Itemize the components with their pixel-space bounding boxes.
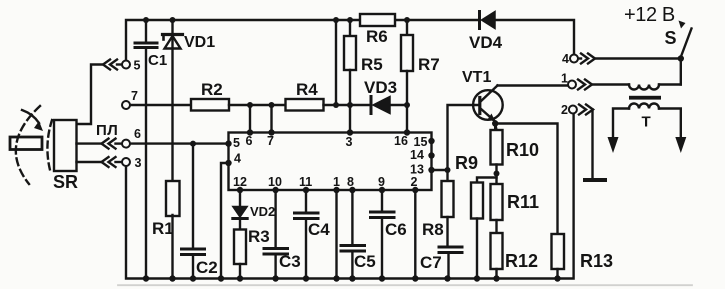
wire emitter branch to R13 bbox=[495, 124, 557, 235]
resistor R2 bbox=[191, 99, 229, 111]
svg-text:4: 4 bbox=[234, 152, 241, 166]
capacitor C1 bbox=[135, 20, 157, 279]
supply arrow head bbox=[679, 21, 686, 29]
svg-text:S: S bbox=[665, 28, 677, 48]
svg-text:4: 4 bbox=[562, 52, 569, 66]
svg-text:C3: C3 bbox=[279, 252, 301, 271]
resistor R13 bbox=[552, 234, 565, 279]
node VT1 emitter junction bbox=[492, 120, 498, 126]
resistor R3 bbox=[234, 230, 246, 279]
node switch junction bbox=[678, 55, 684, 61]
wire pin 1 to rail bbox=[335, 190, 337, 279]
svg-text:VD2: VD2 bbox=[250, 204, 275, 219]
wire pin 4 bbox=[221, 163, 229, 279]
scan shadow line bbox=[118, 284, 692, 286]
wire VT1 base vertical bbox=[448, 105, 479, 181]
node R7 wire junction bbox=[404, 102, 410, 108]
svg-text:R12: R12 bbox=[505, 251, 538, 271]
svg-text:R8: R8 bbox=[422, 220, 444, 239]
wire VD3 to R7 line bbox=[390, 104, 407, 106]
wire terminal 1 to transformer bbox=[592, 83, 629, 85]
terminal 6 bbox=[122, 140, 130, 148]
wire collector to terminal 1 bbox=[498, 84, 568, 86]
node R7 top bbox=[404, 17, 410, 23]
node VD1 rail junction bbox=[170, 17, 176, 23]
svg-text:5: 5 bbox=[134, 59, 141, 73]
dashed arc outer bbox=[16, 106, 40, 184]
terminal 2 bbox=[569, 106, 577, 114]
pin labels bottom row bbox=[233, 175, 418, 189]
transformer T primary bbox=[629, 59, 681, 90]
node pin6 drop junction bbox=[247, 102, 253, 108]
wire R1 to ground rail bbox=[171, 215, 173, 279]
node pin7 drop junction bbox=[269, 102, 275, 108]
connector chevron at terminal 1 bbox=[578, 80, 592, 90]
capacitor C6 bbox=[371, 190, 395, 279]
diode VD2 bbox=[233, 190, 247, 230]
resistor R6 bbox=[360, 14, 395, 26]
svg-text:16: 16 bbox=[394, 134, 408, 148]
wire VD4 anode to terminal 4 bbox=[495, 20, 574, 54]
terminal 1 bbox=[568, 81, 576, 89]
node R10 bottom junction bbox=[494, 171, 500, 177]
output arrow right bbox=[675, 137, 686, 153]
wire terminal 5 to SR top pin bbox=[77, 65, 104, 125]
IR ray arrow bbox=[22, 110, 43, 131]
connector chevron at terminal 6 bbox=[102, 139, 122, 149]
svg-text:R6: R6 bbox=[366, 27, 388, 46]
node R5 wire junction bbox=[347, 102, 353, 108]
wire branch rail to R2R4 line bbox=[335, 20, 337, 105]
dashed arc inner bbox=[47, 120, 52, 170]
capacitor C2 bbox=[182, 144, 205, 279]
svg-text:R9: R9 bbox=[455, 153, 478, 173]
svg-text:6: 6 bbox=[246, 134, 253, 148]
node R5 top bbox=[347, 17, 353, 23]
terminal 7 bbox=[122, 101, 130, 109]
switch S lever bbox=[681, 29, 692, 58]
wire junction to R9 bbox=[477, 178, 497, 183]
svg-text:R10: R10 bbox=[506, 140, 539, 160]
IC bottom pin dots bbox=[237, 187, 419, 193]
svg-text:R1: R1 bbox=[152, 219, 174, 238]
svg-text:R13: R13 bbox=[580, 251, 613, 271]
IC top pin dots bbox=[247, 129, 410, 135]
svg-text:R11: R11 bbox=[507, 192, 539, 212]
svg-text:C2: C2 bbox=[196, 258, 218, 277]
node branch bottom bbox=[333, 102, 339, 108]
svg-text:2: 2 bbox=[411, 175, 418, 189]
pin labels top row bbox=[233, 134, 427, 150]
svg-text:7: 7 bbox=[267, 134, 274, 148]
svg-text:T: T bbox=[642, 114, 651, 131]
node C1 rail junction bbox=[143, 17, 149, 23]
svg-text:+12 В: +12 В bbox=[624, 4, 675, 26]
svg-text:SR: SR bbox=[53, 172, 78, 192]
ground rail bottom bbox=[126, 114, 574, 279]
wire terminal 4 to switch bbox=[595, 57, 681, 59]
svg-text:3: 3 bbox=[346, 135, 353, 149]
wire terminal 7 to R2 bbox=[131, 104, 192, 106]
resistor R7 bbox=[401, 20, 413, 133]
resistor R8 bbox=[442, 181, 454, 246]
capacitor C3 bbox=[264, 190, 288, 279]
terminal 4 bbox=[570, 55, 578, 63]
resistor R10 bbox=[491, 124, 503, 185]
svg-text:14: 14 bbox=[410, 148, 424, 162]
node pin 4 bbox=[225, 160, 231, 166]
wire R2 to R4 bbox=[229, 104, 286, 106]
connector chevron at terminal 2 bbox=[579, 105, 593, 115]
wire pin 2 to rail bbox=[414, 190, 416, 279]
wire top supply rail left section bbox=[126, 20, 360, 60]
svg-text:VD3: VD3 bbox=[364, 78, 397, 97]
wire to IC pin 7 bbox=[270, 105, 272, 133]
terminal 3 bbox=[122, 158, 130, 166]
remote control emitter bar bbox=[10, 137, 42, 150]
svg-text:R5: R5 bbox=[361, 55, 383, 74]
resistor R11 bbox=[491, 184, 503, 233]
svg-text:ПЛ: ПЛ bbox=[96, 122, 118, 139]
wire pin 5 from terminal 6 bbox=[131, 142, 229, 144]
svg-text:R3: R3 bbox=[248, 227, 270, 246]
svg-text:VT1: VT1 bbox=[462, 69, 491, 86]
node branch top bbox=[333, 17, 339, 23]
connector chevron at terminal 4 bbox=[579, 54, 596, 64]
diode VD3 bbox=[371, 97, 390, 114]
svg-text:VD1: VD1 bbox=[184, 34, 215, 51]
zener diode VD1 bbox=[163, 20, 183, 181]
svg-text:R4: R4 bbox=[296, 80, 318, 99]
svg-text:5: 5 bbox=[233, 136, 240, 150]
resistor R4 bbox=[286, 99, 324, 111]
terminal 5 bbox=[122, 61, 130, 69]
svg-text:C7: C7 bbox=[420, 253, 442, 272]
capacitor C5 bbox=[341, 190, 365, 279]
IC right pin dots 15 14 13 bbox=[428, 138, 434, 173]
wire pin 13 to base chain bbox=[432, 169, 448, 171]
node pin 5 bbox=[225, 140, 231, 146]
svg-text:C6: C6 bbox=[385, 220, 407, 239]
svg-text:R2: R2 bbox=[201, 80, 223, 99]
connector chevron at terminal 3 bbox=[102, 157, 122, 167]
IC U1 box bbox=[229, 133, 432, 191]
transformer core bbox=[629, 96, 661, 100]
wire SR middle pin to chevron 6 bbox=[77, 142, 102, 144]
resistor R1 bbox=[166, 181, 180, 216]
svg-text:1: 1 bbox=[561, 72, 568, 86]
svg-text:C4: C4 bbox=[308, 220, 330, 239]
wire SR bottom pin to chevron 3 bbox=[77, 161, 102, 163]
transistor VT1 bbox=[473, 86, 503, 131]
wire terminal 2 to chassis ground bbox=[591, 110, 593, 179]
output arrow left bbox=[608, 137, 619, 153]
svg-text:2: 2 bbox=[561, 103, 568, 117]
svg-text:6: 6 bbox=[134, 127, 141, 141]
chassis ground bbox=[583, 178, 607, 182]
resistor R12 bbox=[491, 233, 503, 279]
connector chevron at terminal 5 bbox=[103, 60, 122, 70]
diode VD4 bbox=[480, 12, 496, 29]
wire R4 to VD3 bbox=[324, 104, 370, 106]
svg-text:3: 3 bbox=[135, 156, 142, 170]
photodetector SR bbox=[54, 120, 77, 171]
svg-text:R7: R7 bbox=[418, 55, 440, 74]
capacitor C4 bbox=[295, 190, 319, 279]
resistor R5 bbox=[344, 20, 356, 133]
resistor R9 bbox=[471, 183, 483, 279]
svg-text:VD4: VD4 bbox=[469, 33, 503, 52]
svg-text:7: 7 bbox=[131, 89, 138, 103]
wire top rail right of R6 to VD4 bbox=[395, 19, 478, 21]
transformer T secondary bbox=[613, 104, 681, 139]
capacitor C7 bbox=[439, 247, 462, 279]
svg-text:C1: C1 bbox=[148, 52, 167, 69]
node C2 branch bbox=[190, 141, 196, 147]
svg-text:C5: C5 bbox=[354, 252, 376, 271]
node base chain junction bbox=[445, 167, 451, 173]
wire to IC pin 6 bbox=[249, 105, 251, 133]
ground rail junction dots bbox=[143, 275, 561, 281]
svg-text:15: 15 bbox=[414, 135, 428, 149]
